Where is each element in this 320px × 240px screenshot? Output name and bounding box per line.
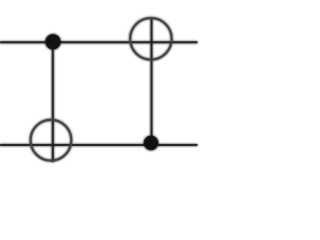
- blurred halo layer: [0, 18, 198, 163]
- CNOT1 vertical connector halo: [52, 42, 54, 162]
- wire q0 core: [0, 41, 198, 43]
- CNOT1 vertical connector core: [52, 42, 54, 162]
- CNOT2 control dot halo: [143, 135, 158, 150]
- CNOT1 control dot halo: [45, 34, 61, 50]
- sharp core layer: [0, 18, 198, 163]
- CNOT1 control dot core: [45, 34, 60, 49]
- CNOT2 vertical connector core: [151, 18, 153, 144]
- CNOT2 target circle core: [130, 18, 172, 60]
- wire q1 halo: [0, 144, 198, 146]
- wire q0 halo: [0, 41, 198, 43]
- wire q1 core: [0, 144, 198, 146]
- CNOT2 target circle halo: [130, 18, 172, 60]
- CNOT1 target circle halo: [31, 120, 72, 161]
- CNOT2 vertical connector halo: [150, 18, 152, 144]
- CNOT2 control dot core: [144, 136, 159, 151]
- CNOT1 target circle core: [31, 120, 72, 161]
